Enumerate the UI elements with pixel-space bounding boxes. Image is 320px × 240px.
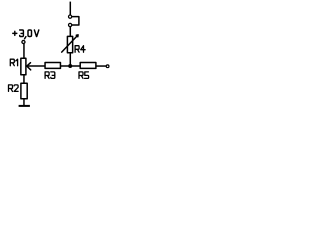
resistor R5 body: [80, 63, 96, 69]
label R5: [79, 72, 89, 79]
potentiometer wiper arrow R1: [27, 63, 31, 70]
connector pad bottom: [69, 23, 72, 26]
wire connector to R4: [69, 27, 71, 37]
wire R3 junction R5: [60, 65, 80, 67]
label R1: [10, 59, 17, 65]
wire R5 to output terminal: [96, 65, 106, 67]
supply terminal circle: [22, 40, 25, 43]
label R4: [75, 46, 85, 53]
connector pad top: [69, 15, 72, 18]
output terminal circle: [106, 65, 109, 68]
resistor R2 body: [21, 83, 27, 98]
label R2: [9, 85, 19, 92]
resistor R3 body: [45, 63, 60, 69]
wire wiper to R3: [27, 65, 45, 67]
wire R2 to ground: [23, 99, 25, 106]
wire top edge to connector: [69, 2, 71, 16]
trimmer arrow R4: [62, 35, 78, 52]
net label +3,0V: [13, 30, 39, 39]
junction node dot: [68, 64, 72, 68]
trimmer R4 body: [67, 36, 72, 52]
connector link stub: [72, 17, 79, 25]
wire supply to R1: [23, 44, 25, 59]
wire R1 to R2: [23, 75, 25, 84]
potentiometer R1 body: [21, 58, 26, 74]
label R3: [45, 72, 55, 79]
wire R4 to junction: [69, 53, 71, 66]
ground symbol: [19, 105, 30, 107]
